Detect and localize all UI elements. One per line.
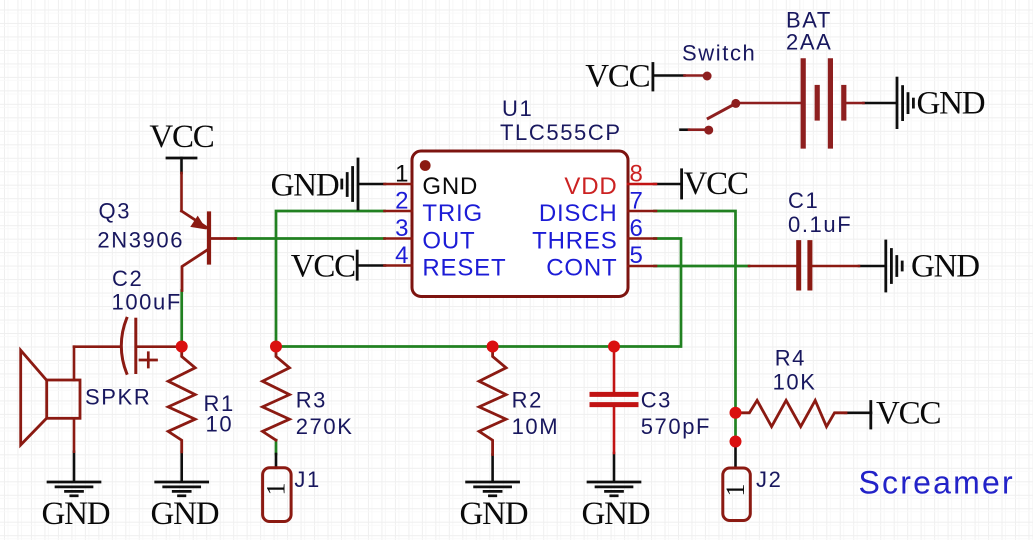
svg-text:Switch: Switch: [682, 41, 756, 66]
switch top contact lead: [685, 74, 703, 77]
svg-text:10M: 10M: [512, 414, 560, 439]
capacitor C3 bottom plate: [592, 402, 636, 407]
junction node at C2/R1/Q3: [176, 341, 188, 353]
svg-text:DISCH: DISCH: [539, 200, 618, 227]
svg-text:VDD: VDD: [564, 173, 617, 200]
wire C3 to GND: [613, 453, 616, 481]
capacitor C2 plus sign: [140, 353, 157, 367]
svg-text:CONT: CONT: [546, 254, 617, 281]
wire pin7 DISCH to R4 node: [655, 211, 736, 442]
svg-text:VCC: VCC: [291, 249, 355, 285]
svg-text:RESET: RESET: [422, 254, 506, 281]
switch bottom contact lead: [689, 128, 704, 131]
svg-text:570pF: 570pF: [641, 414, 711, 439]
wire pin5 CONT to C1: [655, 265, 750, 268]
transistor Q3 base lead: [209, 237, 236, 240]
transistor Q3 base bar: [207, 214, 211, 263]
wire R4 to VCC flag: [845, 411, 871, 414]
switch lever: [708, 103, 736, 118]
svg-text:GND: GND: [917, 86, 985, 122]
U1 pin 7 stub: [628, 210, 656, 213]
svg-text:1: 1: [395, 161, 408, 188]
ground flag at C1: [886, 241, 902, 291]
wire R3 to J1: [275, 440, 278, 454]
svg-text:R3: R3: [296, 388, 327, 413]
wire SPKR to GND: [73, 452, 76, 481]
wire R2 to GND: [491, 455, 494, 482]
junction node at R3: [270, 341, 282, 353]
power flag VCC above Q3: [167, 157, 196, 160]
svg-text:R2: R2: [512, 388, 543, 413]
wire C1 to GND flag: [859, 265, 884, 268]
wire to J1 pin: [275, 454, 278, 468]
junction node at R4: [730, 407, 742, 419]
resistor R1: [168, 347, 195, 452]
resistor R3: [263, 347, 290, 441]
wire bus node to pin6 THRES: [276, 239, 681, 347]
capacitor C1 right plate: [807, 243, 812, 288]
svg-text:GND: GND: [42, 496, 110, 532]
capacitor C3 top lead: [613, 347, 616, 393]
svg-text:GND: GND: [422, 173, 478, 200]
transistor Q3 emitter diagonal: [182, 211, 208, 228]
wire pin2 TRIG to R3 node: [276, 211, 385, 347]
switch top contact dot: [703, 72, 712, 81]
U1 pin 1 stub: [385, 183, 413, 186]
IC U1 TLC555CP body: [412, 151, 628, 297]
svg-text:OUT: OUT: [422, 227, 475, 254]
speaker SPKR cone: [21, 350, 47, 445]
junction node at C3: [608, 341, 620, 353]
svg-text:Q3: Q3: [99, 199, 132, 224]
connector J1 body: [263, 468, 292, 522]
svg-text:8: 8: [630, 161, 643, 188]
svg-text:SPKR: SPKR: [85, 385, 151, 410]
capacitor C2 plus plate: [134, 319, 137, 372]
svg-text:270K: 270K: [296, 414, 354, 439]
svg-text:J2: J2: [756, 467, 782, 492]
wire node to J2 pin: [734, 442, 737, 469]
svg-text:100uF: 100uF: [112, 290, 182, 315]
switch pivot dot: [731, 99, 740, 108]
power flag VCC at switch: [652, 64, 655, 91]
battery BAT plate 4 short: [841, 88, 846, 119]
svg-text:J1: J1: [294, 467, 320, 492]
U1 pin 4 stub: [385, 264, 413, 267]
wire VCC flag to switch top contact: [654, 74, 685, 77]
capacitor C2 left lead: [74, 345, 121, 348]
svg-text:GND: GND: [460, 496, 528, 532]
ground symbol under R2: [467, 482, 519, 496]
svg-text:10: 10: [206, 412, 234, 437]
svg-text:C2: C2: [112, 266, 143, 291]
svg-text:VCC: VCC: [876, 396, 940, 432]
battery BAT left lead: [740, 102, 801, 105]
U1 pin 2 stub: [385, 210, 413, 213]
battery BAT plate 1 long: [801, 61, 806, 146]
wire battery to GND flag: [864, 102, 896, 105]
capacitor C1 left lead: [749, 265, 797, 268]
power flag VCC at pin8: [680, 170, 683, 198]
svg-text:0.1uF: 0.1uF: [788, 212, 852, 237]
ground flag at battery: [897, 78, 913, 128]
battery BAT plate 2 short: [815, 88, 820, 119]
svg-text:2N3906: 2N3906: [97, 228, 184, 253]
U1 pin 3 stub: [385, 237, 413, 240]
wire VCC flag stem above Q3: [180, 158, 183, 173]
ground symbol under R1: [156, 482, 208, 496]
svg-text:7: 7: [630, 188, 643, 215]
svg-text:TLC555CP: TLC555CP: [500, 120, 622, 145]
connector J2 body: [723, 468, 751, 521]
U1 pin 6 stub: [628, 237, 656, 240]
wire pin3 OUT to Q3 base: [236, 237, 385, 240]
speaker SPKR box: [47, 380, 80, 418]
U1 pin 8 stub: [628, 183, 656, 186]
svg-text:Screamer: Screamer: [859, 465, 1015, 501]
svg-text:C3: C3: [641, 388, 672, 413]
speaker SPKR bottom pin: [73, 418, 76, 451]
svg-text:3: 3: [395, 215, 408, 242]
svg-text:U1: U1: [502, 96, 533, 121]
resistor R2: [479, 347, 506, 455]
wire pin8 to VCC flag: [654, 183, 681, 186]
junction node at R2: [487, 341, 499, 353]
svg-text:10K: 10K: [773, 370, 817, 395]
power flag VCC at pin4: [356, 251, 359, 279]
svg-text:C1: C1: [788, 188, 819, 213]
transistor Q3 emitter arrow: [190, 216, 206, 230]
wire stub at switch bottom contact: [681, 128, 690, 131]
svg-text:THRES: THRES: [532, 227, 617, 254]
wire Q3 collector to node: [180, 291, 183, 347]
svg-text:GND: GND: [911, 249, 979, 285]
svg-text:GND: GND: [582, 496, 650, 532]
resistor R4: [736, 400, 847, 426]
junction node at J2: [730, 436, 742, 448]
svg-text:R4: R4: [775, 346, 806, 371]
svg-text:GND: GND: [151, 496, 219, 532]
capacitor C2 right lead: [136, 345, 182, 348]
ground flag at pin1: [342, 159, 358, 209]
speaker SPKR top pin: [73, 347, 76, 380]
capacitor C1 right lead: [812, 265, 859, 268]
transistor Q3 collector diagonal: [182, 250, 208, 291]
capacitor C3 bottom lead: [613, 407, 616, 453]
battery BAT plate 3 long: [828, 61, 833, 146]
capacitor C1 left plate: [796, 243, 801, 288]
ground symbol under C3: [588, 482, 640, 496]
svg-text:5: 5: [630, 242, 643, 269]
svg-text:4: 4: [395, 242, 408, 269]
svg-text:VCC: VCC: [585, 59, 649, 95]
svg-text:6: 6: [630, 215, 643, 242]
power flag VCC at R4: [869, 402, 872, 429]
capacitor C2 curved plate: [121, 318, 126, 373]
svg-text:GND: GND: [271, 168, 339, 204]
wire VCC flag to pin4: [359, 264, 386, 267]
wire R1 to GND: [180, 452, 183, 481]
switch bottom contact dot: [704, 126, 713, 135]
svg-text:2: 2: [395, 188, 408, 215]
ground symbol under SPKR: [48, 482, 100, 496]
capacitor C3 top plate: [592, 392, 636, 397]
svg-text:1: 1: [721, 484, 750, 497]
wire GND flag to pin1: [360, 183, 386, 186]
svg-text:1: 1: [262, 483, 291, 496]
wire VCC to Q3 emitter: [180, 173, 183, 211]
U1 pin 5 stub: [628, 265, 656, 268]
svg-text:VCC: VCC: [684, 166, 748, 202]
svg-text:TRIG: TRIG: [422, 200, 483, 227]
svg-text:VCC: VCC: [149, 119, 213, 155]
svg-text:2AA: 2AA: [786, 30, 832, 55]
battery BAT right lead: [847, 102, 864, 105]
U1 pin-1 marker dot: [420, 160, 431, 171]
